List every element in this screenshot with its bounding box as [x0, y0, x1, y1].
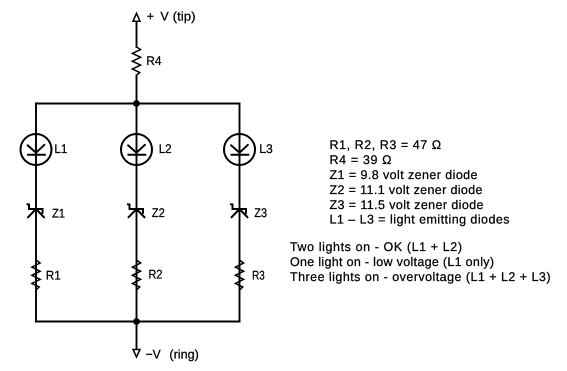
svg-text:(tip): (tip) [173, 10, 196, 24]
svg-text:R2: R2 [149, 268, 163, 282]
svg-text:−V: −V [146, 347, 162, 361]
svg-text:Two lights on - OK (L1 + L2): Two lights on - OK (L1 + L2) [290, 240, 462, 254]
svg-text:Z2 = 11.1 volt zener diode: Z2 = 11.1 volt zener diode [330, 183, 483, 197]
svg-text:R4 = 39 Ω: R4 = 39 Ω [330, 153, 392, 167]
svg-text:Z1: Z1 [52, 206, 65, 220]
svg-text:L3: L3 [259, 142, 273, 156]
svg-text:+: + [147, 10, 154, 24]
svg-text:L1 – L3 = light emitting diode: L1 – L3 = light emitting diodes [330, 213, 510, 227]
svg-text:L2: L2 [159, 142, 172, 156]
svg-text:L1: L1 [54, 142, 67, 156]
svg-text:Z1 = 9.8 volt zener diode: Z1 = 9.8 volt zener diode [330, 168, 478, 182]
svg-text:R1, R2, R3 = 47 Ω: R1, R2, R3 = 47 Ω [330, 138, 442, 152]
svg-text:Z2: Z2 [152, 206, 165, 220]
svg-text:One light on - low voltage (L1: One light on - low voltage (L1 only) [290, 255, 494, 269]
svg-text:(ring): (ring) [169, 347, 198, 361]
svg-text:Three lights on - overvoltage: Three lights on - overvoltage (L1 + L2 +… [290, 270, 551, 284]
svg-text:R1: R1 [46, 269, 61, 283]
svg-text:R3: R3 [252, 269, 265, 283]
svg-text:Z3: Z3 [254, 206, 267, 220]
svg-text:V: V [160, 10, 169, 24]
svg-text:Z3 = 11.5 volt zener diode: Z3 = 11.5 volt zener diode [330, 198, 484, 212]
svg-text:R4: R4 [146, 54, 161, 68]
